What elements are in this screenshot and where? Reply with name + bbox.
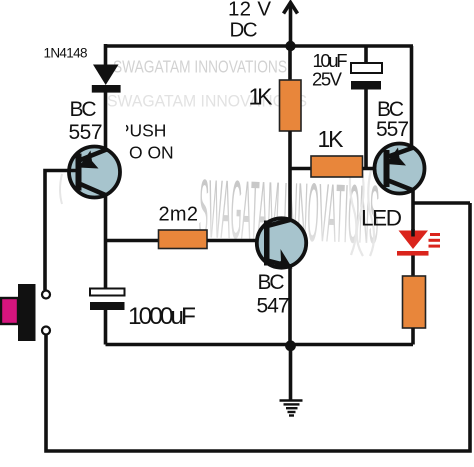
wire R2 to Q2 base: [363, 167, 386, 171]
transistor Q2 BC557 right: [375, 144, 425, 194]
wire right branch: [413, 201, 470, 205]
wire diode to Q1: [104, 92, 108, 150]
wire switch to bottom rail: [46, 203, 470, 451]
svg-text:1K: 1K: [318, 126, 345, 152]
wire tap to R2: [290, 167, 311, 171]
wire bottom inner rail: [106, 343, 414, 347]
svg-text:SWAGATAM INNOVATIONS: SWAGATAM INNOVATIONS: [113, 57, 287, 77]
capacitor C2 1000uF: [90, 289, 125, 311]
watermark faint swoosh left: [60, 174, 62, 204]
svg-text:BC: BC: [258, 271, 285, 294]
node junction top: [285, 41, 295, 51]
svg-text:557: 557: [376, 118, 409, 141]
wire Q2 collector to LED: [411, 190, 415, 231]
svg-text:SWAGATAM INNOVATIONS: SWAGATAM INNOVATIONS: [107, 93, 307, 111]
svg-text:1K: 1K: [249, 84, 274, 110]
svg-text:547: 547: [257, 295, 290, 318]
wire Q1 base to switch: [45, 171, 77, 291]
wire 2m2 to Q3 base: [207, 239, 264, 243]
svg-text:1000uF: 1000uF: [128, 303, 196, 330]
wire Q3 emitter down: [288, 267, 292, 347]
watermark faint tall strokes: [350, 162, 374, 256]
wire cap to bottom: [104, 310, 108, 345]
push button S1: [1, 284, 50, 341]
svg-text:2m2: 2m2: [159, 204, 199, 226]
wire to ground: [289, 346, 293, 400]
wire LED to R4: [411, 256, 415, 277]
wire R4 to bottom: [411, 328, 415, 345]
wire tap to 2m2: [106, 239, 159, 243]
svg-text:1N4148: 1N4148: [44, 46, 88, 61]
resistor R2 1K horizontal: [311, 156, 363, 177]
svg-text:12 V: 12 V: [228, 0, 271, 21]
wire top rail: [106, 44, 414, 48]
transistor Q3 BC547: [257, 218, 306, 268]
capacitor C1 10uF: [351, 46, 382, 169]
svg-text:BC: BC: [70, 98, 97, 121]
svg-text:25V: 25V: [312, 69, 343, 90]
wire Q1 collector down: [104, 195, 108, 290]
LED D2: [397, 229, 440, 256]
resistor R3 2m2: [159, 230, 208, 249]
resistor R1 1K vertical: [280, 46, 302, 220]
diode D1 1N4148: [92, 65, 121, 93]
wire top right corner: [410, 46, 414, 148]
resistor R4 LED limiter: [403, 276, 426, 328]
svg-text:DC: DC: [230, 19, 258, 42]
wire diode drop: [104, 44, 108, 65]
ground: [280, 401, 303, 416]
transistor Q1 BC557 left: [69, 147, 120, 198]
node junction bottom: [285, 340, 296, 351]
svg-text:557: 557: [69, 121, 103, 144]
svg-text:LED: LED: [361, 206, 402, 231]
supply arrow 12V: [284, 3, 298, 47]
